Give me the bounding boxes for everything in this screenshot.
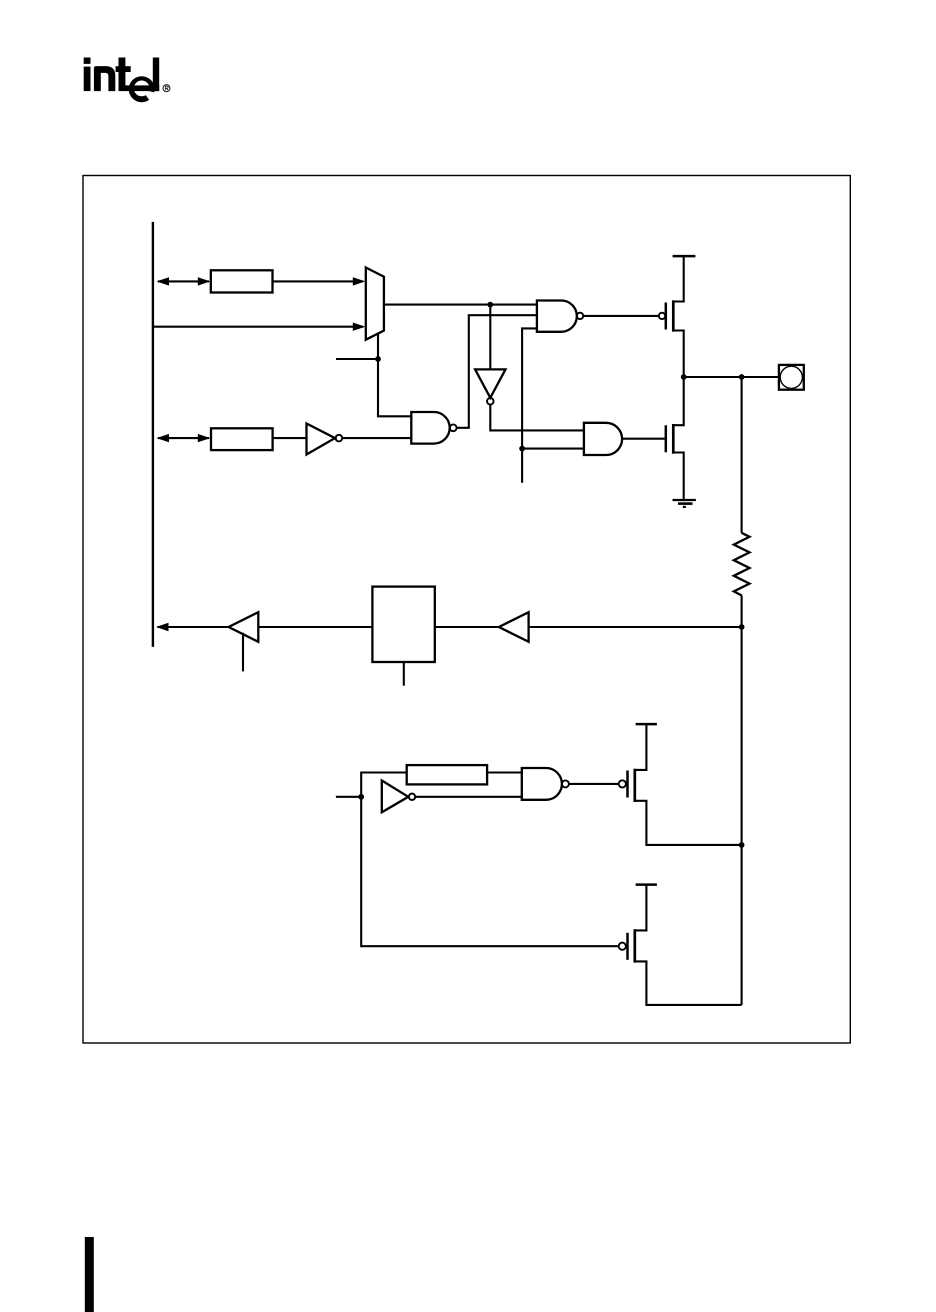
wire NAND U1 output to Q1 gate: [583, 315, 659, 317]
wire delay block X2 to NAND U9 input 1: [487, 771, 522, 773]
wire buffer U6 enable stub: [242, 633, 244, 672]
arrowhead row1 right: [198, 277, 211, 285]
wire row3 bus-to-latch (double arrow): [158, 437, 209, 439]
inverter U8: [382, 781, 409, 813]
VCC rail Q4: [636, 883, 657, 886]
transistor Q4: [619, 943, 626, 950]
delay block X2: [407, 765, 487, 784]
wire latch1-to-mux: [273, 280, 364, 282]
arrowhead into mux row2: [353, 323, 366, 331]
node junction on mux output: [487, 302, 493, 308]
wire NAND U9 output to Q3 gate: [569, 783, 619, 785]
node junction drain: [681, 374, 687, 380]
ground: [673, 499, 696, 501]
block X1: [372, 587, 434, 662]
wire NAND U2 output to NAND U1 input 2: [457, 315, 537, 428]
intel logo: [84, 58, 170, 106]
wire AND U5 input 2: [522, 448, 584, 450]
page registration bar: [85, 1237, 94, 1312]
wire control line to NAND U1 input 3 and AND U5 input 2: [522, 328, 537, 482]
wire inverter U8 output to NAND U9 input 2: [415, 796, 522, 798]
NAND U2: [411, 412, 449, 444]
VCC rail Q3: [636, 723, 657, 726]
node junction control/AND input: [519, 446, 525, 452]
node junction bottom input: [358, 794, 364, 800]
mux M1: [366, 268, 384, 340]
inverter U4 (pointing down): [475, 369, 505, 397]
wire middle row to bus: [158, 626, 229, 628]
arrowhead row3 right: [198, 434, 211, 442]
wire mux select stub (vertical): [378, 334, 411, 417]
wire pin node down to resistor: [741, 377, 743, 533]
wire riser to delay block X2: [361, 773, 407, 797]
latch block 2: [211, 428, 273, 450]
wire buffer U6 to block X1: [258, 626, 372, 628]
wire inverter U3 to NAND U2: [342, 437, 411, 439]
wire latch2-to-inverter: [273, 437, 307, 439]
wire inverter U4 output to AND U5 input 1: [490, 405, 584, 431]
arrowhead row3 left: [157, 434, 170, 442]
wire block X1 to buffer U7: [435, 626, 499, 628]
resistor R1: [734, 533, 750, 596]
wire output node to pin: [684, 376, 779, 378]
buffer U7: [499, 612, 529, 642]
inverter U3: [307, 424, 336, 455]
arrowhead into mux row1: [353, 277, 366, 285]
AND U5: [584, 423, 622, 455]
wire resistor to bottom section: [741, 595, 743, 1005]
node junction mux stub: [375, 356, 381, 362]
wire buffer U7 to pin branch: [529, 626, 742, 628]
wire control stub left: [336, 358, 378, 360]
arrowhead row1 left: [157, 277, 170, 285]
wire inverter U4 input (vertical from mux output node): [489, 305, 491, 370]
node junction pin branch: [739, 374, 745, 380]
wire bottom input stub: [336, 796, 361, 798]
wire row2 bus-to-mux: [153, 326, 363, 328]
VCC rail Q1: [673, 255, 696, 258]
arrowhead middle row into bus: [156, 623, 169, 631]
port pin pad: [779, 365, 804, 390]
wire row1 bus-to-latch (double arrow): [158, 280, 209, 282]
wire mux output to NAND U1 input 1: [384, 304, 537, 306]
transistor Q3: [619, 780, 626, 787]
wire block X1 bottom stub: [403, 662, 405, 686]
bus (internal bus vertical line): [152, 222, 154, 647]
latch block 1: [211, 270, 273, 292]
wire Q4 gate line: [361, 797, 619, 946]
NAND U1: [537, 301, 577, 332]
wire AND U5 output to Q2 gate: [622, 438, 664, 440]
buffer U6 (read buffer): [229, 612, 259, 642]
node junction Q3 source: [739, 842, 745, 848]
NAND U9: [522, 768, 562, 800]
transistor Q1 (pull-up FET): [659, 313, 665, 319]
transistor Q2 (pull-down FET): [665, 425, 668, 452]
node junction middle row: [739, 624, 745, 630]
